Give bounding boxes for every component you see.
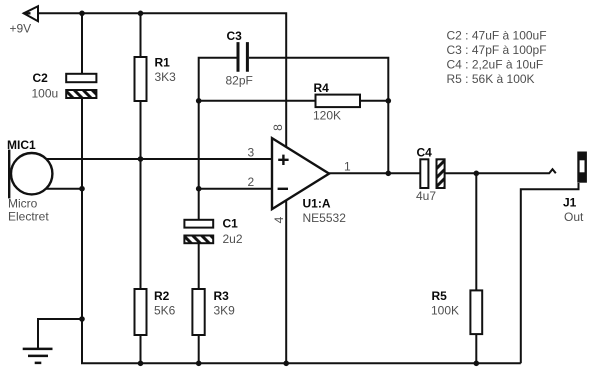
svg-text:3K3: 3K3	[155, 70, 177, 84]
resistor R5	[470, 290, 482, 334]
junction at rail/C2	[79, 11, 85, 17]
svg-text:C4: C4	[417, 146, 433, 160]
svg-text:R2: R2	[154, 289, 170, 303]
svg-text:Micro: Micro	[8, 197, 38, 211]
capacitor C2 bottom plate (polarized hatch)	[66, 90, 96, 98]
wire: pin3 row from MIC1 to op-amp	[40, 158, 272, 160]
svg-text:2: 2	[248, 175, 255, 189]
wire: C4 to jack tip with spring caret	[445, 169, 556, 173]
svg-text:R3: R3	[214, 289, 230, 303]
svg-text:8: 8	[271, 124, 285, 131]
svg-text:R5 : 56K à 100K: R5 : 56K à 100K	[447, 72, 535, 86]
svg-text:+9V: +9V	[10, 22, 32, 36]
wire: C1 branch (pin2 node down through C1 to R3 to bottom rail)	[198, 189, 200, 364]
+9V arrow tip stub	[24, 12, 31, 14]
capacitor C1 bottom plate (polarized hatch)	[184, 236, 213, 244]
wire: MIC1 bottom terminal to C2 column	[40, 188, 82, 190]
connector J1 slot	[580, 160, 585, 172]
op-amp U1:A	[272, 138, 329, 209]
svg-text:R4: R4	[314, 81, 330, 95]
svg-text:C3: C3	[227, 29, 243, 43]
svg-text:2u2: 2u2	[223, 232, 243, 246]
wire: ground branch	[38, 319, 82, 349]
junction at bottom rail/R2	[138, 361, 144, 367]
junction at bottom rail/pin4	[283, 361, 289, 367]
svg-text:4: 4	[272, 216, 286, 223]
wire: jack sleeve return to bottom rail	[521, 183, 579, 363]
op-amp minus input mark	[278, 188, 288, 190]
wire: C3 branch left + feedback node vertical	[199, 58, 237, 189]
svg-text:1: 1	[344, 160, 351, 174]
svg-text:NE5532: NE5532	[303, 211, 347, 225]
capacitor C1 top plate	[184, 220, 213, 228]
svg-text:MIC1: MIC1	[7, 138, 36, 152]
capacitor C4 right plate (polarized hatch)	[437, 159, 445, 188]
wire: op-amp pin 4 down to bottom rail	[285, 200, 287, 363]
svg-text:Electret: Electret	[8, 210, 49, 224]
svg-text:C4 : 2,2uF à 10uF: C4 : 2,2uF à 10uF	[447, 58, 544, 72]
resistor R1	[135, 57, 147, 101]
wire: C2 bottom through mic node and ground node to bottom-left corner, bottom rail	[82, 98, 521, 363]
svg-text:120K: 120K	[313, 109, 341, 123]
junction at output/feedback	[386, 171, 392, 177]
junction at pin2 node/C1 column	[196, 186, 202, 192]
junction at bottom rail/R5	[474, 361, 480, 367]
svg-text:U1:A: U1:A	[303, 197, 331, 211]
svg-text:82pF: 82pF	[226, 74, 253, 88]
svg-text:3: 3	[248, 146, 255, 160]
ground symbol	[23, 349, 53, 363]
microphone MIC1 electret bar	[8, 150, 10, 199]
resistor R3	[192, 289, 204, 335]
svg-text:C3 : 47pF à 100pF: C3 : 47pF à 100pF	[447, 43, 547, 57]
wire: pin2 row	[199, 188, 272, 190]
wire: R1 column (rail - R1 - pin3 row - R2 - bottom rail)	[140, 13, 142, 363]
wire: +9V top rail to pin8 column corner	[38, 13, 286, 146]
wire: R4 row	[199, 100, 389, 102]
junction at output/R5	[474, 171, 480, 177]
junction at mic bottom/C2 column	[79, 186, 85, 192]
svg-text:C2 : 47uF à 100uF: C2 : 47uF à 100uF	[447, 29, 547, 43]
svg-text:100K: 100K	[431, 304, 459, 318]
svg-text:R1: R1	[155, 56, 171, 70]
junction at bottom rail/R3	[196, 361, 202, 367]
svg-text:C2: C2	[33, 71, 49, 85]
connector J1 body	[577, 152, 587, 183]
junction at R4 right/output column	[386, 98, 392, 104]
resistor R4	[316, 95, 361, 108]
power arrow +9V	[24, 6, 38, 21]
capacitor C3 plates	[238, 42, 247, 72]
svg-text:C1: C1	[223, 217, 239, 231]
capacitor C4 left plate	[420, 159, 428, 188]
resistor R2	[135, 289, 147, 335]
junction at feedback node/R4 left	[196, 98, 202, 104]
junction at rail/R1	[138, 11, 144, 17]
svg-text:5K6: 5K6	[154, 304, 176, 318]
svg-text:100u: 100u	[32, 87, 59, 101]
wire: C2 column top (rail to C2)	[81, 13, 83, 74]
svg-text:R5: R5	[432, 289, 448, 303]
svg-text:4u7: 4u7	[416, 189, 436, 203]
microphone MIC1 body	[11, 153, 52, 194]
svg-text:Out: Out	[564, 210, 584, 224]
capacitor C2 top plate	[66, 74, 96, 82]
wire: R5 column	[475, 173, 477, 363]
svg-text:3K9: 3K9	[214, 304, 236, 318]
wire: C3 branch right down to output node	[249, 58, 388, 174]
junction at ground/C2 column	[79, 316, 85, 322]
wire: output row (pin1 to C4)	[329, 172, 420, 174]
svg-text:J1: J1	[563, 196, 577, 210]
op-amp plus input mark	[278, 155, 288, 165]
junction at pin3 row/R1 column	[138, 156, 144, 162]
